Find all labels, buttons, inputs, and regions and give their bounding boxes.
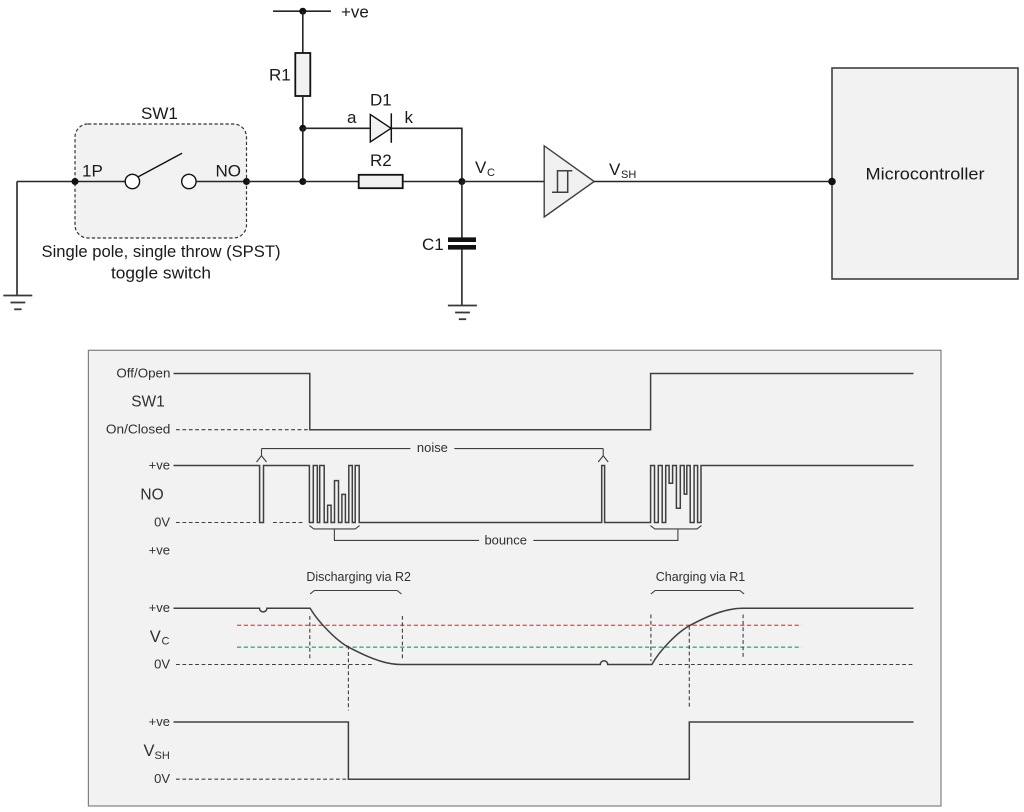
- Vsh axis labels: [144, 714, 171, 786]
- svg-text:Discharging via R2: Discharging via R2: [306, 569, 411, 584]
- junction dot main net at R1 branch: [299, 178, 306, 185]
- Vc 0V dashed baseline right: [659, 664, 914, 666]
- svg-text:a: a: [347, 108, 357, 127]
- Vc upper threshold dashed red: [237, 624, 802, 626]
- marker dashed charge start: [650, 615, 652, 662]
- svg-text:D1: D1: [370, 91, 392, 110]
- svg-text:+ve: +ve: [149, 600, 170, 615]
- terminal dot NO: [243, 178, 250, 185]
- svg-text:SW1: SW1: [131, 394, 165, 411]
- bounce link line left: [334, 529, 479, 541]
- node A (R1/D1 junction): [299, 125, 306, 132]
- svg-text:R1: R1: [269, 66, 291, 85]
- switch pole contact circle: [125, 174, 139, 188]
- wire NO terminal to node A: [247, 181, 303, 183]
- svg-text:+ve: +ve: [149, 543, 170, 558]
- marker dashed discharge start: [309, 616, 311, 659]
- brace discharge interval: [310, 591, 401, 594]
- Vsh waveform trace: [174, 722, 914, 779]
- node Vc junction dot: [458, 178, 465, 185]
- wire node A to R2: [303, 181, 359, 183]
- marker dashed upper threshold crossing: [688, 626, 690, 709]
- svg-text:Charging via R1: Charging via R1: [656, 569, 746, 584]
- svg-text:On/Closed: On/Closed: [106, 422, 171, 437]
- wire R2 to node Vc: [403, 181, 462, 183]
- wire Vc to capacitor C1: [461, 182, 463, 238]
- timing diagram panel: [88, 350, 941, 806]
- bounce link line right: [533, 529, 678, 541]
- microcontroller block: [832, 68, 1018, 279]
- svg-text:0V: 0V: [154, 657, 170, 672]
- NO 0V dashed baseline: [176, 522, 303, 524]
- SW1 axis labels: [106, 366, 171, 437]
- diode D1: [370, 91, 392, 143]
- svg-text:bounce: bounce: [484, 532, 527, 547]
- SW1 on/closed dashed baseline: [176, 429, 310, 431]
- wire diode cathode to Vc branch: [392, 128, 462, 181]
- switch SW1 dashed enclosure: [75, 104, 247, 238]
- schmitt trigger buffer U1: [544, 146, 594, 217]
- terminal dot 1P: [72, 178, 79, 185]
- node label Vc: [475, 158, 495, 179]
- Vc 0V dashed baseline left: [176, 664, 375, 666]
- wire node A down to main net: [302, 128, 304, 181]
- wire Vc to schmitt input: [462, 181, 544, 183]
- Vc lower threshold dashed green: [237, 646, 802, 648]
- svg-text:R2: R2: [370, 151, 392, 170]
- Vsh 0V dashed baseline: [176, 778, 347, 780]
- svg-text:1P: 1P: [82, 162, 103, 181]
- wire pole lead down to ground: [16, 182, 18, 296]
- svg-text:+ve: +ve: [149, 458, 170, 473]
- node label Vsh: [609, 160, 636, 181]
- NO waveform trace with bounce: [174, 466, 914, 523]
- wire +ve rail to R1: [302, 11, 304, 53]
- caption SPST toggle switch: [42, 242, 281, 283]
- brace charge interval: [651, 591, 744, 594]
- svg-text:k: k: [405, 108, 414, 127]
- svg-text:0V: 0V: [154, 771, 170, 786]
- marker dashed lower threshold crossing: [347, 646, 349, 711]
- wire NO contact to box edge: [196, 181, 246, 183]
- marker dashed charge end: [742, 615, 744, 659]
- svg-text:+ve: +ve: [149, 714, 170, 729]
- resistor R1: [269, 53, 310, 96]
- svg-text:NO: NO: [216, 162, 242, 181]
- svg-text:V: V: [609, 160, 621, 179]
- microcontroller pin dot: [828, 178, 836, 186]
- wire node A to diode anode: [303, 127, 370, 129]
- svg-text:NO: NO: [140, 487, 163, 504]
- wire schmitt output to microcontroller: [594, 181, 832, 183]
- svg-text:C: C: [487, 167, 495, 179]
- Vc axis labels: [149, 600, 171, 671]
- bounce brace under first burst: [309, 526, 359, 529]
- svg-text:C: C: [162, 635, 170, 647]
- resistor R2: [359, 151, 403, 188]
- capacitor C1: [422, 235, 476, 254]
- marker dashed discharge end: [401, 616, 403, 659]
- svg-text:SW1: SW1: [141, 104, 178, 123]
- wire left lead into SW1: [17, 181, 125, 183]
- svg-text:SH: SH: [155, 750, 170, 762]
- svg-text:V: V: [475, 158, 487, 177]
- junction on +ve rail: [299, 8, 306, 15]
- switch NO contact circle: [182, 174, 196, 188]
- ground at pole lead: [3, 296, 32, 310]
- svg-text:SH: SH: [621, 169, 636, 181]
- bounce brace under second burst: [650, 526, 701, 529]
- switch lever arm: [138, 153, 182, 177]
- Vc waveform trace: [174, 608, 914, 664]
- wire R1 to node A: [302, 96, 304, 128]
- +ve supply rail: [273, 3, 369, 22]
- noise annotation pointer left: [257, 449, 411, 462]
- svg-text:Microcontroller: Microcontroller: [866, 165, 985, 184]
- svg-text:0V: 0V: [154, 515, 170, 530]
- svg-text:C1: C1: [422, 235, 444, 254]
- wire C1 to ground: [461, 250, 463, 306]
- ground below C1: [448, 306, 477, 320]
- svg-text:noise: noise: [417, 440, 448, 455]
- svg-text:toggle switch: toggle switch: [111, 264, 211, 283]
- svg-text:+ve: +ve: [341, 3, 369, 22]
- SW1 waveform trace: [174, 374, 914, 430]
- noise annotation pointer right: [454, 449, 608, 462]
- NO axis labels: [140, 458, 170, 530]
- svg-text:Single pole, single throw (SPS: Single pole, single throw (SPST): [42, 242, 281, 261]
- svg-text:Off/Open: Off/Open: [116, 366, 170, 381]
- svg-text:V: V: [150, 628, 161, 646]
- svg-text:V: V: [144, 742, 155, 760]
